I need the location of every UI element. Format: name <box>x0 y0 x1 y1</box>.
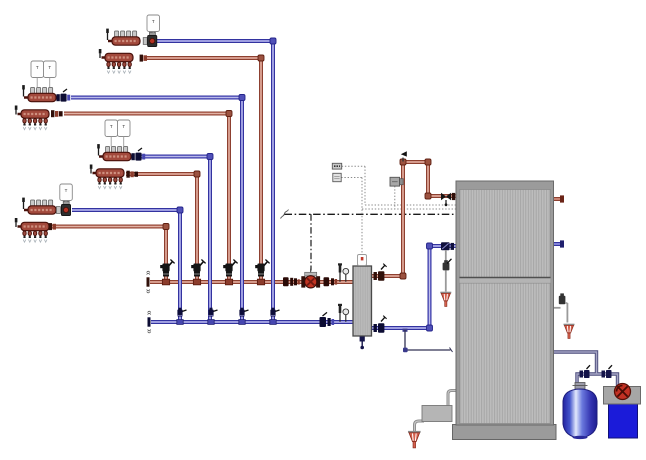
thermostat T2 wires <box>36 78 38 88</box>
elbow red M4 <box>163 224 169 230</box>
red collector end cap <box>147 271 150 293</box>
valve blue drop M1 <box>270 308 280 325</box>
pipe blue manifold 3 drop <box>141 157 210 323</box>
safety valve group boiler left <box>443 250 452 292</box>
union red boiler inlet <box>452 193 455 200</box>
manifold 4 red union <box>49 223 52 230</box>
pipe blue manifold 2 drop <box>71 98 242 323</box>
union blue boiler inlet <box>451 243 454 250</box>
elbow red riser bottom <box>400 273 406 279</box>
pipe red manifold 1 drop <box>145 58 261 282</box>
butterfly valve red boiler inlet <box>441 193 451 206</box>
pipe blue manifold 1 drop <box>157 41 273 322</box>
elbow blue M3 <box>207 154 213 160</box>
elbow red M2 <box>226 111 232 117</box>
drain funnel boiler right <box>564 325 575 339</box>
manifold 2 blue union <box>56 94 59 101</box>
hydraulic separator <box>353 266 372 336</box>
gray drain pipe burner box to funnel <box>415 421 425 431</box>
controller terminal strip <box>332 163 341 169</box>
pipe red manifold 4 drop <box>48 227 166 283</box>
union left of pump <box>290 278 293 286</box>
sensor wire dotted upper <box>342 166 457 205</box>
valve red drop M3 <box>191 260 205 285</box>
thermostat T1 <box>147 15 160 32</box>
valves on vessel-filter manifold <box>580 365 613 378</box>
drain funnel boiler left <box>440 293 451 307</box>
pipe red manifold 3 drop <box>126 174 197 282</box>
expansion vessel neck fitting <box>573 383 588 390</box>
manifold 3 red union <box>126 171 129 178</box>
manifold 2 red union <box>51 110 54 117</box>
thermostat T2b <box>44 61 57 78</box>
pipe blue manifold 4 drop <box>72 210 180 322</box>
elbow blue near boiler bottom <box>427 325 433 331</box>
valve blue drop M4 <box>177 308 187 325</box>
pump P1 circulation <box>301 269 320 288</box>
elbow red M3 <box>194 171 200 177</box>
manifold 1 red union <box>140 55 143 62</box>
sensor pocket box on riser <box>390 177 403 186</box>
separator bottom drain valve <box>360 337 365 350</box>
union blue separator outlet <box>374 324 377 332</box>
union red separator outlet <box>374 272 377 280</box>
sensor wire riser pocket <box>394 186 396 209</box>
pipe red boiler right stub <box>553 197 562 201</box>
pipe blue return collector <box>151 320 354 324</box>
manifold 4 zone valve with actuator <box>61 201 70 215</box>
pipe gray-blue boiler to vessel and filter <box>553 352 618 387</box>
thermostat T4 <box>60 184 73 201</box>
manifold 3 blue ball valve <box>135 148 145 161</box>
manifold 3 blue union <box>131 153 134 160</box>
gray flue pipe boiler to burner box <box>448 391 457 407</box>
pipe blue separator to boiler <box>371 246 457 328</box>
control wiring dash-dot main bus <box>285 213 457 215</box>
elbow blue near boiler top <box>427 243 433 249</box>
pipe thin drain line from blue main <box>403 329 408 332</box>
manifold group 2 <box>15 85 56 130</box>
ball valve right of pump <box>324 277 330 286</box>
blue collector end cap <box>148 311 151 333</box>
filter unit body <box>604 387 641 439</box>
valve red drop M4 <box>160 260 174 285</box>
pipe red supply collector <box>150 280 354 284</box>
manifold 4 right coupling <box>56 207 60 214</box>
valve blue drop M3 <box>208 308 218 325</box>
ball valve blue collector <box>320 312 328 327</box>
manifold group 1 <box>99 29 140 74</box>
manifold group 4 <box>15 198 56 243</box>
air vent on red riser <box>401 151 407 161</box>
thermometer blue collector <box>338 304 342 322</box>
blue stub cap boiler right <box>560 240 564 247</box>
boiler body <box>453 181 557 440</box>
wiring break squiggle <box>281 210 289 219</box>
thermostat T3b <box>118 120 131 137</box>
pipe blue boiler right stub <box>553 242 562 246</box>
pipe red manifold 2 drop <box>64 114 229 283</box>
thermostat T1 wire <box>152 32 154 34</box>
valve red drop M1 <box>255 260 269 285</box>
manifold 1 zone valve with actuator <box>148 32 157 46</box>
elbow blue M1 <box>270 38 276 44</box>
elbow red riser top <box>400 159 406 165</box>
manifold 2 blue ball valve <box>60 89 70 102</box>
sensor wire dotted lower <box>341 178 456 258</box>
elbow red boiler inlet <box>425 193 431 199</box>
thermometer red collector <box>338 263 342 282</box>
thermostat T4 wire <box>65 201 67 204</box>
thermostat T2a <box>31 61 44 78</box>
elbow red M1 <box>258 55 264 61</box>
elbow blue M4 <box>177 207 183 213</box>
separator top sensor pocket <box>358 255 367 266</box>
ball valve red separator outlet <box>378 264 387 281</box>
valve red drop M2 <box>223 260 237 285</box>
wiring drop to pump <box>310 214 312 270</box>
burner box bottom left <box>422 406 452 422</box>
drain funnel bottom left <box>408 432 421 448</box>
expansion vessel <box>563 389 597 439</box>
pressure gauge red collector <box>343 268 349 281</box>
manifold group 3 <box>90 144 131 189</box>
red stub cap boiler right <box>560 195 564 202</box>
pressure gauge blue collector <box>343 309 349 322</box>
manifold 1 right coupling <box>143 38 147 45</box>
ball valve blue separator outlet <box>378 316 387 333</box>
union right of pump <box>331 278 334 285</box>
pipe red separator to boiler <box>371 162 457 276</box>
check valve blue boiler inlet <box>441 242 450 250</box>
valve blue drop M2 <box>239 308 249 325</box>
union blue collector <box>328 318 331 326</box>
thermostat T3 wires <box>110 137 112 147</box>
thermostat T3a <box>105 120 118 137</box>
ball valve left of pump <box>283 277 289 286</box>
elbow blue M2 <box>239 95 245 101</box>
safety valve group boiler right <box>554 293 568 322</box>
filter pump head <box>615 384 631 400</box>
controller module <box>333 173 341 181</box>
elbow red boiler top <box>425 159 431 165</box>
